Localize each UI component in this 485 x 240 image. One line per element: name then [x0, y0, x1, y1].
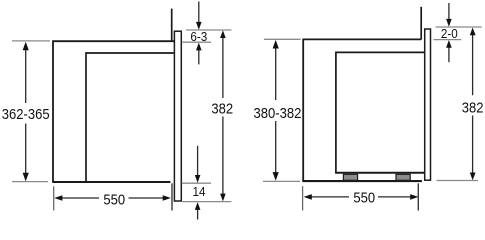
extension line bottom-left (362-365)	[12, 181, 48, 183]
dimension 382 (right): top arrowhead	[470, 28, 476, 36]
cabinet front edge above niche (right drawing)	[420, 7, 422, 40]
foot right (right drawing)	[396, 174, 410, 180]
extension line lower (6-3)	[182, 41, 211, 43]
svg-text:550: 550	[353, 188, 375, 205]
dimension 2-0: upper arrow (pointing down)	[448, 3, 450, 20]
svg-text:382: 382	[462, 99, 484, 116]
cabinet niche (left drawing): left wall + top	[53, 41, 174, 182]
extension line below-right (550 right drawing)	[417, 183, 419, 210]
extension line upper (6-3 / 382 top)	[186, 29, 231, 31]
dimension 6-3: upper arrow (pointing down)	[198, 2, 200, 24]
dimension 380-382: bottom arrowhead	[273, 172, 279, 181]
dimension 362-365: bottom arrowhead	[23, 173, 29, 182]
svg-text:550: 550	[103, 190, 125, 207]
dimension 14: lower arrow (pointing up)	[197, 210, 199, 220]
svg-text:6-3: 6-3	[190, 30, 207, 45]
dimension 362-365: top arrowhead	[23, 42, 29, 51]
dimension 382 (left): top arrowhead	[220, 30, 226, 38]
dimension 14: upper arrow (pointing down)	[197, 146, 199, 176]
extension line upper (2-0 / 382 top)	[436, 26, 482, 28]
cabinet front edge above niche (left drawing)	[171, 9, 173, 42]
extension line top-left (380-382)	[264, 38, 301, 40]
svg-text:382: 382	[211, 100, 233, 117]
dimension 362-365: line	[25, 50, 27, 174]
extension line below-left (550 right drawing)	[302, 186, 304, 210]
dimension 382 (left): bottom arrowhead	[220, 194, 226, 202]
extension line upper (14)	[182, 182, 211, 184]
foot left (right drawing)	[343, 174, 357, 180]
svg-text:14: 14	[192, 184, 205, 199]
microwave body bottom (right drawing)	[335, 172, 425, 174]
dimension 550 (right drawing): left arrowhead	[304, 194, 312, 200]
dimension 2-0: lower arrow (pointing up)	[448, 47, 450, 62]
cabinet niche bottom (left drawing)	[52, 181, 170, 183]
dimension 550 (left drawing): line	[61, 197, 164, 199]
extension line lower (14 / 382 bottom)	[182, 201, 232, 203]
extension line lower (382 right drawing)	[437, 180, 479, 182]
extension line bottom-left (380-382)	[263, 180, 300, 182]
cabinet niche bottom (right drawing)	[302, 180, 422, 182]
microwave body (right drawing)	[336, 52, 425, 172]
dimension 550 (left drawing): right arrowhead	[163, 195, 171, 201]
extension line below-right (550 left drawing)	[171, 183, 173, 210]
dimension 382 (right): bottom arrowhead	[470, 173, 476, 181]
dimension 382 (right drawing): line	[472, 34, 474, 173]
svg-text:2-0: 2-0	[441, 27, 458, 42]
extension line lower (2-0)	[434, 39, 462, 41]
dimension 380-382: line	[275, 48, 277, 173]
dimension 550 (left drawing): left arrowhead	[54, 195, 62, 201]
dimension 550 (right drawing): right arrowhead	[410, 194, 418, 200]
microwave front trim panel (left drawing)	[174, 31, 181, 201]
microwave front trim panel (right drawing)	[425, 29, 431, 180]
microwave body (left drawing)	[86, 53, 174, 181]
svg-text:380-382: 380-382	[253, 104, 301, 121]
svg-text:362-365: 362-365	[2, 105, 50, 122]
dimension 6-3: lower arrow (pointing up)	[198, 50, 200, 64]
extension line top-left (362-365)	[12, 40, 50, 42]
dimension 380-382: top arrowhead	[273, 40, 279, 49]
dimension 382 (left drawing): line	[222, 37, 224, 195]
extension line below-left (550 left drawing)	[53, 186, 55, 210]
cabinet niche (right drawing): left wall + top	[303, 39, 421, 181]
dimension 550 (right drawing): line	[311, 196, 411, 198]
